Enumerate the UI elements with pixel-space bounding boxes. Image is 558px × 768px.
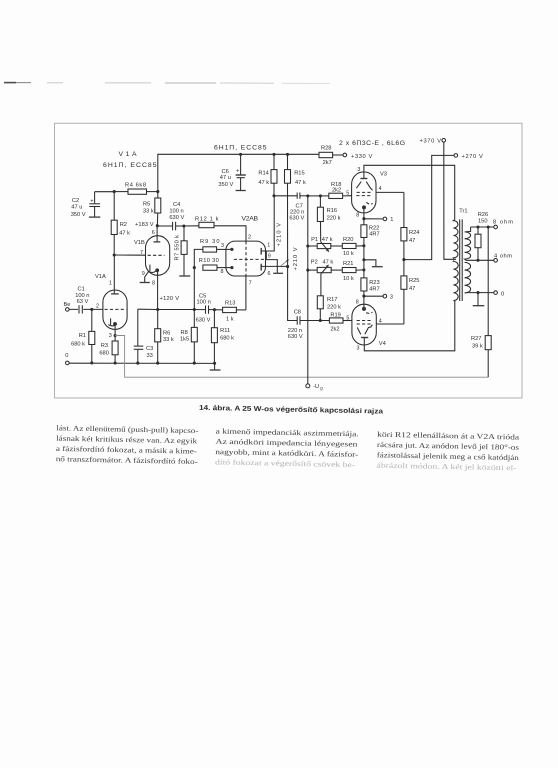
ground bar V2 pin6 <box>273 266 283 273</box>
junction +183 node <box>156 224 159 227</box>
junction R8 top on C5 row <box>193 308 196 311</box>
svg-text:630 V: 630 V <box>169 215 184 221</box>
V3 beam plates <box>356 182 372 191</box>
svg-text:100 n: 100 n <box>197 300 211 306</box>
V1B anode <box>152 226 161 242</box>
svg-text:ábrázolt módon. A két jel közö: ábrázolt módon. A két jel közötti el- <box>376 461 517 473</box>
wire C3 row <box>138 308 195 310</box>
svg-text:R12 1 k: R12 1 k <box>195 217 219 223</box>
junction R16 top <box>319 194 322 197</box>
resistor R14 <box>258 153 277 196</box>
svg-text:6Н1П, ECC85: 6Н1П, ECC85 <box>103 162 157 169</box>
resistor R19 <box>320 312 352 332</box>
wire R9R10 net to C5 row <box>193 268 195 310</box>
svg-text:R10 30: R10 30 <box>199 258 219 264</box>
svg-text:R13: R13 <box>225 300 235 306</box>
svg-text:R8: R8 <box>181 330 188 336</box>
resistor R25 <box>401 260 420 324</box>
junction R4 left <box>113 190 116 193</box>
wire ground rail <box>69 362 215 364</box>
svg-text:0: 0 <box>501 291 504 297</box>
capacitor C4 <box>157 202 184 231</box>
svg-text:C3: C3 <box>146 346 153 352</box>
svg-text:2k2: 2k2 <box>332 187 341 193</box>
resistor R16 <box>317 196 340 242</box>
resistor R4 <box>114 183 158 195</box>
svg-text:R17: R17 <box>327 297 337 303</box>
svg-text:2k2: 2k2 <box>330 326 339 332</box>
V1A cathode <box>108 318 117 339</box>
junction bias line top <box>306 194 309 197</box>
ground rail end <box>210 363 221 370</box>
svg-text:+370 V: +370 V <box>420 139 442 145</box>
svg-text:+330 V: +330 V <box>351 154 373 160</box>
svg-text:8: 8 <box>356 212 359 218</box>
transformer Tr1 primary winding <box>453 208 467 300</box>
svg-text:R24: R24 <box>409 230 419 236</box>
wire V1B grid <box>114 254 145 256</box>
resistor R2 <box>111 192 130 255</box>
svg-text:47: 47 <box>409 238 415 244</box>
capacitor C7 <box>274 193 308 222</box>
tube V3 envelope <box>352 172 376 213</box>
svg-text:0: 0 <box>65 353 68 359</box>
svg-text:8: 8 <box>221 269 224 275</box>
svg-text:P2: P2 <box>311 260 318 266</box>
svg-text:8: 8 <box>152 281 155 287</box>
svg-text:+120 V: +120 V <box>160 296 180 302</box>
svg-text:3: 3 <box>390 295 393 301</box>
wire C2 to R4 junction <box>95 191 115 193</box>
V4 anode <box>357 301 455 352</box>
V1B cathode <box>148 265 159 310</box>
junction R26 bottom <box>476 259 479 262</box>
svg-text:100 n: 100 n <box>75 293 89 299</box>
potentiometer P2 <box>306 260 333 296</box>
svg-text:R21: R21 <box>343 261 353 267</box>
tube V2AB envelope <box>226 241 266 276</box>
V4 screen grid dashes pin 4 <box>357 318 404 324</box>
junction R24 R25 +270 <box>402 258 405 261</box>
wire V2 pin7 riser <box>245 276 247 310</box>
junction feedback tap <box>487 225 490 228</box>
svg-text:10 k: 10 k <box>343 251 354 257</box>
svg-text:+210 V: +210 V <box>293 247 299 270</box>
svg-text:R4 6k8: R4 6k8 <box>125 183 146 189</box>
svg-text:3: 3 <box>221 243 224 249</box>
V2AB internal dashed divider vertical <box>245 241 247 275</box>
page dash artifact top left <box>4 82 330 85</box>
junction R26 top <box>476 225 479 228</box>
svg-text:nő transzformátor. A fázisford: nő transzformátor. A fázisfordító foko- <box>56 454 199 466</box>
svg-text:39 k: 39 k <box>472 343 483 349</box>
junction V3 cathode node <box>362 217 365 220</box>
svg-text:3: 3 <box>357 167 360 173</box>
resistor R28 <box>319 145 343 166</box>
V3 screen grid dashes pin 4 <box>357 186 404 193</box>
svg-text:R23: R23 <box>369 280 379 286</box>
terminal 0 output <box>494 291 504 297</box>
svg-text:4R7: 4R7 <box>369 232 379 238</box>
svg-text:R2: R2 <box>120 222 127 228</box>
svg-text:R22: R22 <box>369 226 379 232</box>
svg-text:47 k: 47 k <box>258 180 269 186</box>
svg-text:47 k: 47 k <box>323 260 334 266</box>
junction R14 bottom / C7 <box>272 194 275 197</box>
svg-text:4R7: 4R7 <box>369 287 379 293</box>
junction +120 node <box>156 308 159 311</box>
svg-text:1: 1 <box>267 243 270 249</box>
svg-text:150: 150 <box>478 219 488 225</box>
resistor R1 <box>71 309 95 363</box>
resistor R10 <box>199 258 234 275</box>
svg-text:100 n: 100 n <box>169 208 183 214</box>
resistor R6 <box>155 310 174 364</box>
terminal Be <box>66 308 70 312</box>
wire 4 ohm row <box>466 259 494 261</box>
terminal +330V <box>343 153 373 160</box>
junction V4 cathode node <box>362 295 365 298</box>
wire feedback long <box>115 336 488 378</box>
terminal 8 ohm <box>493 220 513 229</box>
svg-text:+: + <box>236 169 240 175</box>
svg-text:V3: V3 <box>380 172 387 178</box>
tube V4 envelope <box>352 304 376 345</box>
junction V1A cathode node <box>114 334 117 337</box>
svg-text:63 V: 63 V <box>77 299 89 305</box>
wire top rail riser <box>158 154 319 191</box>
transformer Tr1 core <box>460 219 463 301</box>
capacitor C8 <box>288 267 321 340</box>
V3 anode <box>357 165 454 219</box>
resistor R18 <box>320 182 351 199</box>
resistor R15 <box>285 153 306 267</box>
resistor R21 <box>331 261 364 282</box>
transformer Tr1 secondary winding <box>465 227 471 293</box>
svg-text:R11: R11 <box>220 328 230 334</box>
wire cathode chain <box>363 246 365 270</box>
arrow +210V at V2B <box>281 259 289 266</box>
svg-text:V2AB: V2AB <box>242 216 259 223</box>
svg-text:4: 4 <box>379 318 382 324</box>
potentiometer P1 <box>306 237 332 252</box>
resistor R3 <box>99 336 118 364</box>
V4 control grid dashes pin 5 <box>346 316 372 322</box>
capacitor C3 <box>134 309 154 363</box>
junction secondary ground <box>476 291 479 294</box>
svg-text:Tr1: Tr1 <box>459 208 467 214</box>
svg-text:1 k: 1 k <box>226 316 234 322</box>
svg-text:2: 2 <box>96 304 99 310</box>
junction V4 grid node <box>319 319 322 322</box>
svg-text:C2: C2 <box>72 198 79 204</box>
svg-text:R15: R15 <box>294 171 304 177</box>
V4 beam plates <box>357 325 372 335</box>
svg-text:6Н1П, ECC85: 6Н1П, ECC85 <box>214 144 267 151</box>
svg-text:8 ohm: 8 ohm <box>493 220 513 226</box>
svg-text:R19: R19 <box>330 312 340 318</box>
junction R8 bottom <box>193 362 196 365</box>
svg-text:R26: R26 <box>478 212 488 218</box>
svg-text:5: 5 <box>346 191 349 197</box>
resistor R13 <box>214 300 246 322</box>
V1B grid dashes <box>140 250 165 256</box>
svg-text:630 V: 630 V <box>289 216 304 222</box>
tube V1A envelope <box>103 290 127 329</box>
resistor R7 (vertical, rotated label) <box>175 226 191 276</box>
wire V3 grid node <box>308 195 321 197</box>
svg-text:680 k: 680 k <box>220 336 234 342</box>
svg-text:47 k: 47 k <box>322 237 333 243</box>
svg-text:630 V: 630 V <box>196 317 211 323</box>
svg-text:P1: P1 <box>311 237 318 243</box>
V3 cathode <box>356 202 372 218</box>
V2A plate bar and pin 1 <box>261 196 274 255</box>
svg-text:47 u: 47 u <box>220 175 231 181</box>
resistor R22 <box>361 219 380 246</box>
V1A anode <box>109 255 119 294</box>
terminal 4 ohm <box>494 253 512 262</box>
V2 pin 9 detour <box>266 251 277 266</box>
tube V1B envelope <box>146 236 170 276</box>
svg-text:R14: R14 <box>258 171 268 177</box>
svg-text:7: 7 <box>140 250 143 256</box>
svg-text:6: 6 <box>152 230 155 236</box>
capacitor C1 <box>75 287 89 314</box>
wire input row Be to V1A grid <box>69 308 103 310</box>
svg-text:R9 30: R9 30 <box>200 239 220 245</box>
svg-text:4 ohm: 4 ohm <box>494 253 512 259</box>
resistor R17 <box>317 296 341 321</box>
junction C4/R7/R12 <box>182 224 185 227</box>
ground cathode mid <box>364 260 383 267</box>
svg-text:R1: R1 <box>79 333 86 339</box>
resistor R23 <box>361 270 380 296</box>
svg-text:5: 5 <box>346 316 349 322</box>
svg-text:10 k: 10 k <box>343 276 354 282</box>
junction R6 bottom <box>156 362 159 365</box>
V1A grid dashes <box>96 304 126 310</box>
svg-text:C5: C5 <box>199 294 206 300</box>
svg-text:220 k: 220 k <box>327 304 341 310</box>
junction cathode mid <box>362 258 365 261</box>
V2B plate bar and pin 6 <box>261 264 287 278</box>
svg-text:R3: R3 <box>101 343 108 349</box>
V4 cathode <box>356 296 373 313</box>
V3 control grid dashes pin 5 <box>346 191 372 197</box>
svg-text:g: g <box>320 386 323 391</box>
svg-text:350 V: 350 V <box>218 182 233 188</box>
svg-text:2: 2 <box>248 235 251 241</box>
terminal 3 <box>364 294 393 300</box>
svg-text:47 k: 47 k <box>119 231 130 237</box>
svg-text:8: 8 <box>356 299 359 305</box>
svg-text:R7 550 k: R7 550 k <box>175 235 181 261</box>
svg-text:9: 9 <box>268 254 271 260</box>
capacitor C5 <box>194 294 214 324</box>
svg-text:4: 4 <box>379 186 382 192</box>
junction R2 bottom / V1B grid / V1A anode <box>113 253 116 256</box>
junction R10 left <box>193 266 196 269</box>
svg-text:9: 9 <box>142 271 145 277</box>
junction R22 bottom <box>362 244 365 247</box>
terminal +370V <box>420 139 446 145</box>
resistor R5 <box>143 192 161 226</box>
junction rail end <box>213 362 216 365</box>
svg-text:V1B: V1B <box>134 240 145 246</box>
svg-text:Be: Be <box>64 302 71 308</box>
resistor R11 <box>211 310 234 364</box>
resistor R12 <box>184 217 246 242</box>
resistor R26 <box>475 212 488 260</box>
junction C1/R1 <box>90 308 93 311</box>
wire bias line vertical <box>307 196 309 384</box>
svg-text:350 V: 350 V <box>71 212 86 218</box>
junction C5/R11/R13 <box>213 308 216 311</box>
V2AB internal dashed grid horizontal <box>234 258 266 260</box>
svg-text:-U: -U <box>313 384 319 390</box>
svg-text:R6: R6 <box>163 330 170 336</box>
svg-text:+210 V: +210 V <box>277 223 283 247</box>
junction R1 bottom <box>90 361 93 364</box>
svg-text:7: 7 <box>249 280 252 286</box>
resistor R24 <box>401 192 420 259</box>
svg-text:47: 47 <box>409 286 415 292</box>
wire +270 rail <box>404 155 454 259</box>
svg-text:R16: R16 <box>327 208 337 214</box>
terminal 1 <box>364 217 393 223</box>
svg-text:47 k: 47 k <box>295 180 306 186</box>
junction V2B anode node <box>286 265 289 268</box>
junction C3 bottom <box>136 362 139 365</box>
svg-text:47 u: 47 u <box>71 204 82 210</box>
resistor R20 <box>331 237 364 257</box>
svg-text:R5: R5 <box>143 202 150 208</box>
terminal -Ug <box>306 384 324 391</box>
wire +370 to primary center tap <box>444 142 456 259</box>
junction R21 right <box>362 268 365 271</box>
svg-text:1: 1 <box>109 281 112 287</box>
svg-text:1k5: 1k5 <box>180 337 189 343</box>
svg-text:V4: V4 <box>379 341 386 347</box>
svg-text:R20: R20 <box>343 237 353 243</box>
svg-text:14. ábra. A 25 W-os végerősítő: 14. ábra. A 25 W-os végerősítő kapcsolás… <box>199 405 383 416</box>
wire 8 ohm row <box>471 226 494 228</box>
svg-text:2 x 6П3С-E , 6L6G: 2 x 6П3С-E , 6L6G <box>339 140 405 147</box>
junction R3 bottom <box>114 361 117 364</box>
junction R4 right / R5 top <box>156 190 159 193</box>
capacitor C2 <box>71 192 101 218</box>
svg-text:220 k: 220 k <box>327 216 341 222</box>
svg-text:33 k: 33 k <box>143 209 154 215</box>
svg-text:C1: C1 <box>78 287 85 293</box>
svg-text:33 k: 33 k <box>163 337 174 343</box>
svg-text:R27: R27 <box>471 336 481 342</box>
svg-text:dító fokozat a végerősítő csöv: dító fokozat a végerősítő csövek be- <box>215 457 356 469</box>
svg-text:33: 33 <box>147 353 153 359</box>
svg-text:680: 680 <box>99 350 109 356</box>
svg-text:2k7: 2k7 <box>323 160 332 166</box>
svg-text:+183 V: +183 V <box>135 222 154 228</box>
resistor R9 <box>194 239 233 268</box>
svg-text:R28: R28 <box>321 145 331 151</box>
V1B pin 9 to ground <box>140 271 150 283</box>
terminal 0 input <box>66 361 70 365</box>
svg-text:V1A: V1A <box>119 151 137 158</box>
svg-text:6: 6 <box>268 271 271 277</box>
svg-text:630 V: 630 V <box>288 334 303 340</box>
schematic frame <box>55 123 523 398</box>
svg-text:C6: C6 <box>222 169 229 175</box>
svg-text:680 k: 680 k <box>71 341 85 347</box>
svg-text:3: 3 <box>357 346 360 352</box>
svg-text:R25: R25 <box>409 278 419 284</box>
svg-text:3: 3 <box>109 333 112 339</box>
svg-text:C4: C4 <box>173 202 180 208</box>
ground secondary <box>473 293 485 306</box>
terminal +270V <box>454 154 483 160</box>
capacitor C6 <box>218 153 245 191</box>
svg-text:+270 V: +270 V <box>462 154 484 160</box>
resistor R8 <box>180 310 197 364</box>
svg-text:C8: C8 <box>294 310 301 316</box>
svg-text:1: 1 <box>390 217 393 223</box>
svg-text:V1A: V1A <box>95 274 106 280</box>
resistor R27 (in feedback line) <box>471 227 491 377</box>
wire 0 row <box>466 292 494 294</box>
